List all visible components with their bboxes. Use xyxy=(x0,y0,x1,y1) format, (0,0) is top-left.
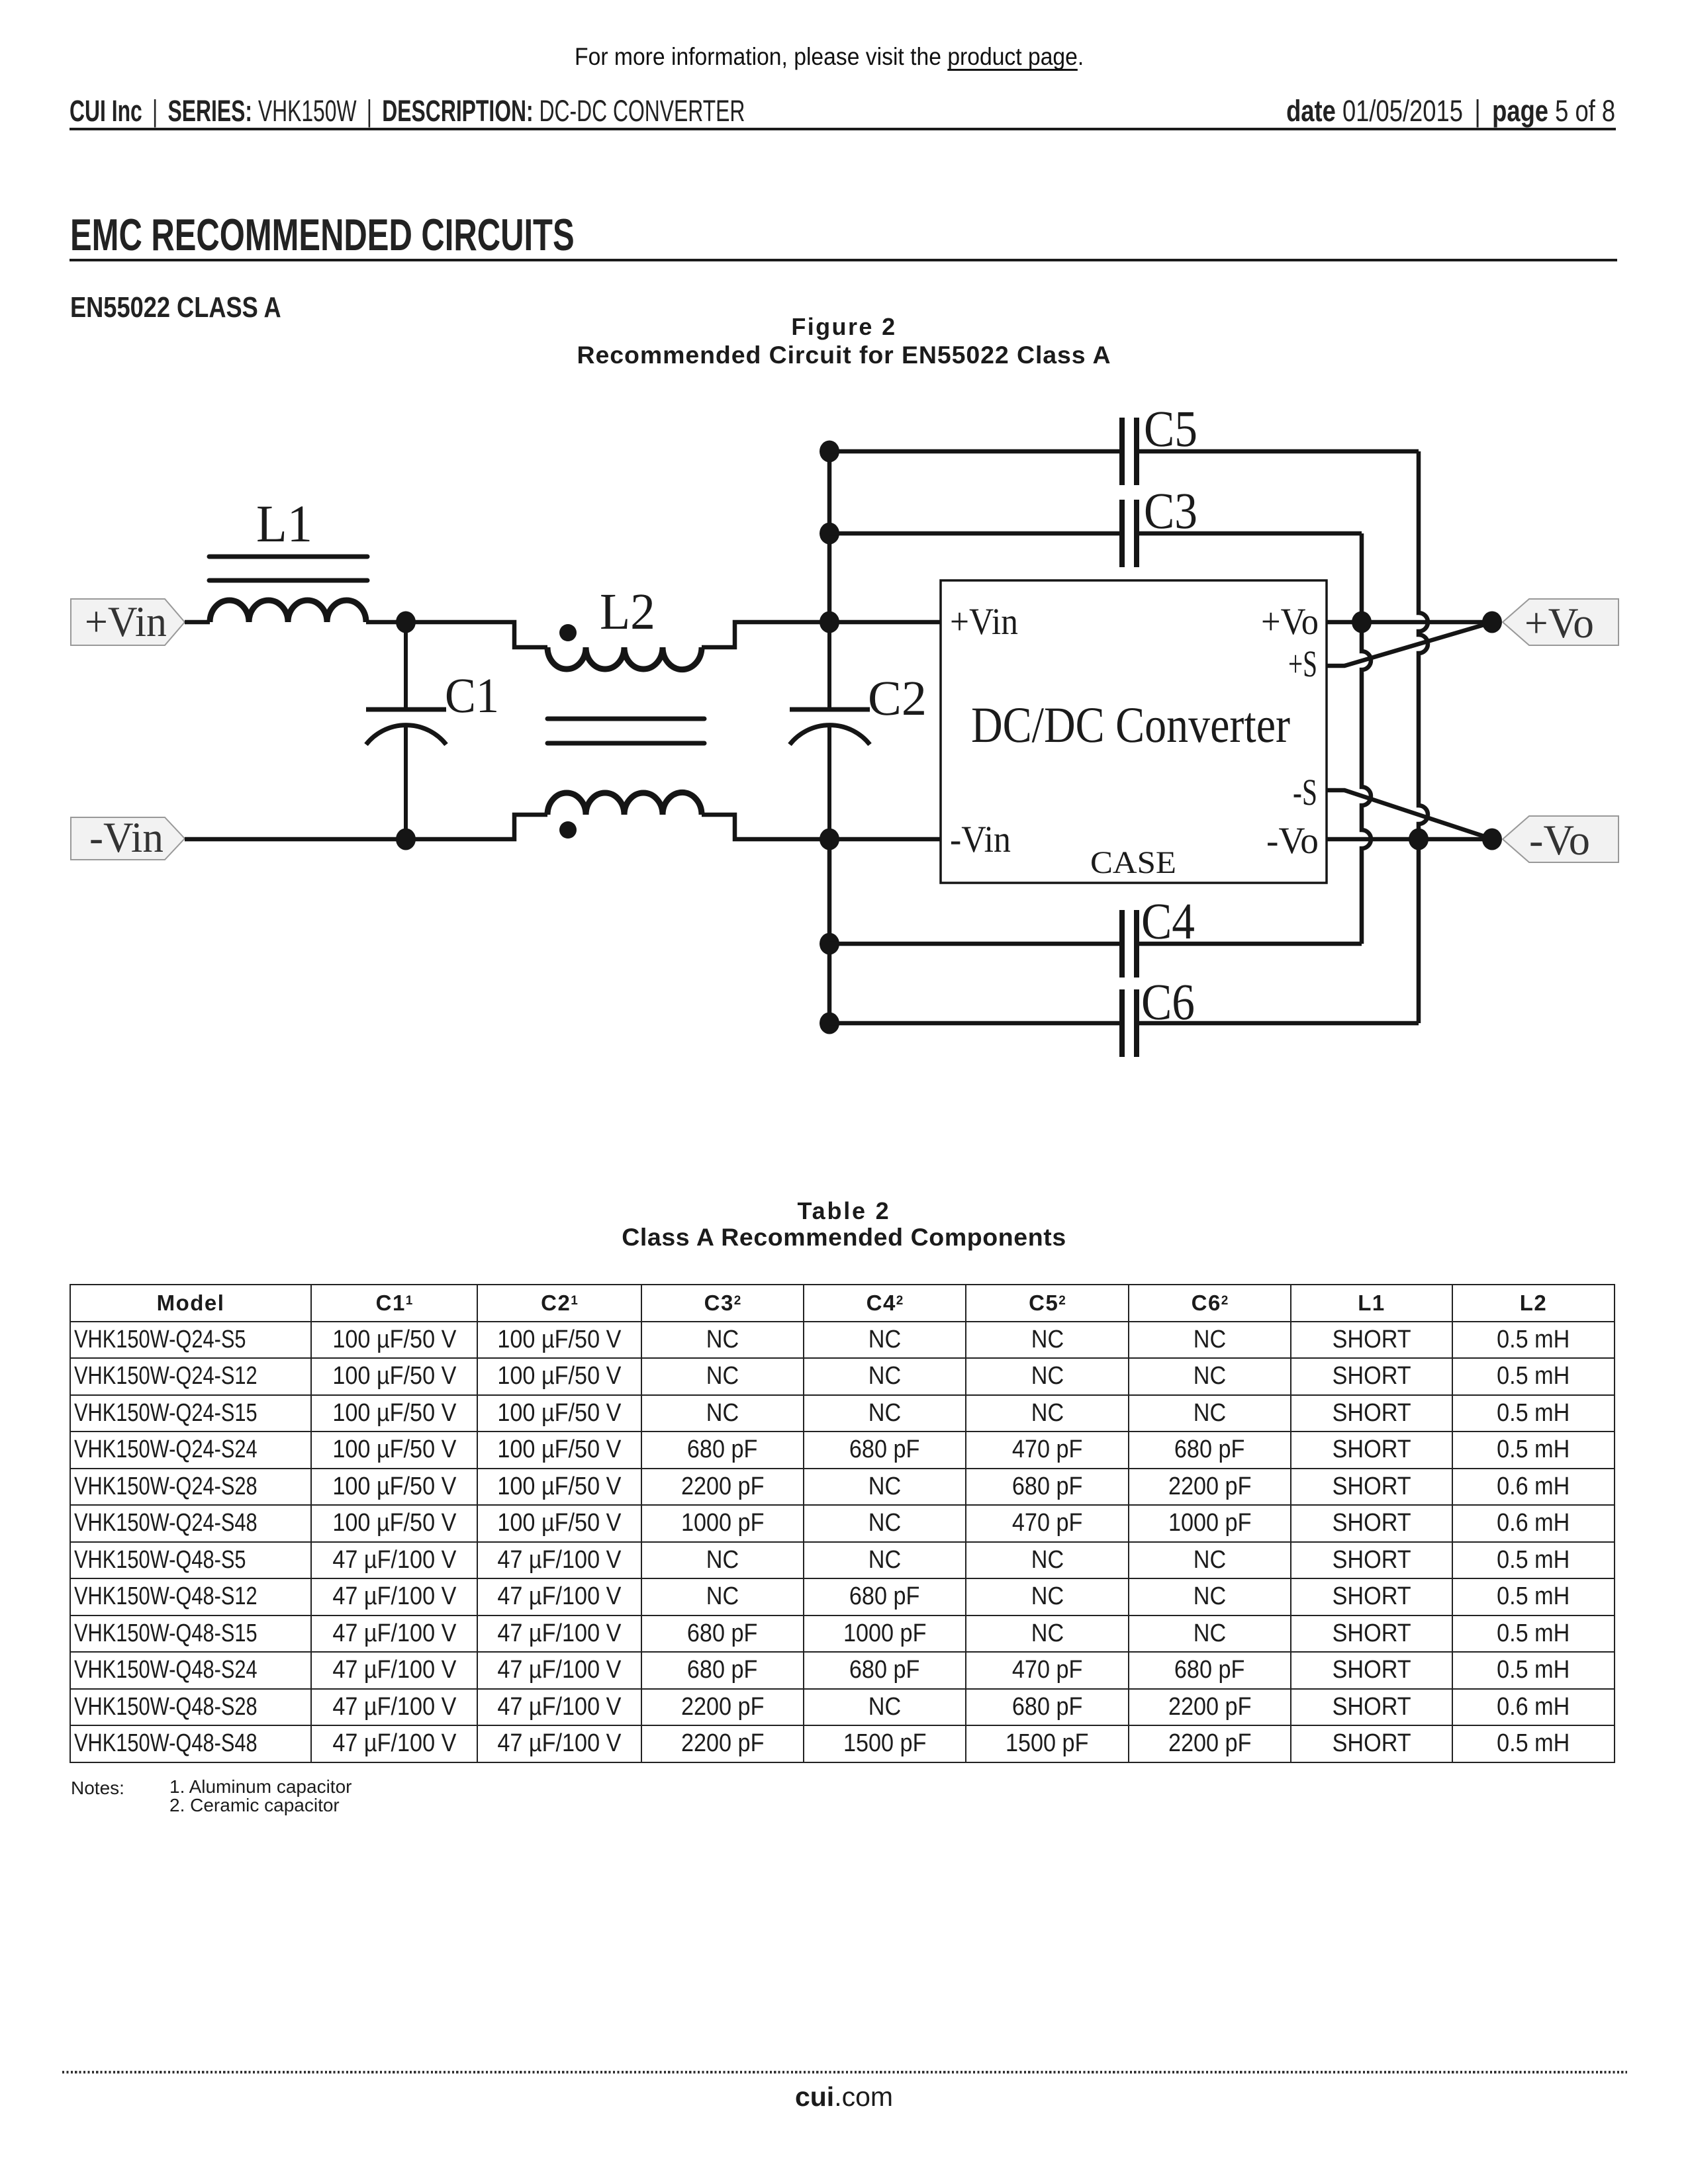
pin label -S xyxy=(1293,772,1317,813)
header link line xyxy=(0,43,1658,71)
wire -Vin tag to node B xyxy=(185,815,547,839)
header left xyxy=(70,94,1023,128)
L2 bottom winding xyxy=(547,792,702,815)
node A junction dot (C1 tap, x=613 y=940) xyxy=(396,612,416,633)
svg-text:C2: C2 xyxy=(868,671,927,726)
svg-text:+Vin: +Vin xyxy=(950,601,1018,643)
wire L1 to node A and jog down to L2 xyxy=(366,622,547,647)
capacitor C1 xyxy=(366,622,499,839)
capacitor C6 xyxy=(829,973,1419,1057)
L2 core bars xyxy=(547,719,704,743)
wire +S sense (crosses to +Vo terminal) xyxy=(1327,623,1491,666)
footer dotted rule xyxy=(62,2071,1627,2073)
svg-text:CASE: CASE xyxy=(1090,845,1176,880)
input bus wire bottom (C4/C6 taps) xyxy=(827,839,832,1023)
node +Vo terminal dot xyxy=(1482,612,1502,633)
svg-text:-Vo: -Vo xyxy=(1529,817,1590,864)
svg-text:L2: L2 xyxy=(600,582,655,640)
wire -S sense (crosses to -Vo terminal) xyxy=(1327,790,1491,839)
svg-text:+S: +S xyxy=(1288,643,1317,685)
svg-text:-S: -S xyxy=(1293,772,1317,813)
wire +Vo output xyxy=(1327,620,1492,625)
section title xyxy=(70,209,771,261)
vertical wire C5 to C6 (with hops) xyxy=(1419,451,1428,1023)
header right xyxy=(1208,94,1615,128)
notes xyxy=(71,1778,124,1799)
svg-text:C3: C3 xyxy=(1144,482,1197,539)
pin label -Vo xyxy=(1266,820,1319,862)
wire -Vo output xyxy=(1327,837,1492,842)
svg-text:+Vin: +Vin xyxy=(85,598,167,646)
DC/DC converter U1 box xyxy=(941,580,1327,883)
svg-text:-Vin: -Vin xyxy=(89,814,164,862)
L2 top winding xyxy=(547,647,702,670)
header rule xyxy=(70,128,1616,130)
component table xyxy=(70,1284,1615,1763)
node B junction dot (x=613 y=1268) xyxy=(396,829,416,850)
node D junction dot (x=1253 y=1268) xyxy=(820,829,839,850)
node H junction dot (bus/C6 x=1253 y=1546) xyxy=(820,1013,839,1034)
subsection xyxy=(70,291,326,324)
svg-text:-Vo: -Vo xyxy=(1266,820,1319,862)
capacitor C5 xyxy=(829,400,1419,485)
wire L2 bottom to node D xyxy=(702,815,941,839)
CIRCUIT SVG xyxy=(0,0,1688,1191)
node E junction dot (bus/C5 x=1253 y=682) xyxy=(820,441,839,463)
svg-text:L1: L1 xyxy=(256,495,312,553)
pin label -Vin xyxy=(950,819,1011,860)
L2 phase dot top xyxy=(559,624,577,641)
inductor L1 xyxy=(209,495,367,622)
wire L2 top to node C xyxy=(702,622,941,647)
input terminal tag +Vin xyxy=(71,598,185,646)
output terminal tag -Vo xyxy=(1503,816,1618,864)
node G junction dot (bus/C4 x=1253 y=1426) xyxy=(820,933,839,955)
table caption xyxy=(0,1197,1688,1225)
input bus wire top (C5/C3 taps) xyxy=(827,451,832,622)
node F junction dot (bus/C3 x=1253 y=806) xyxy=(820,523,839,545)
wire +Vin tag to L1 xyxy=(185,620,210,625)
common-mode choke L2 xyxy=(547,582,704,839)
footer logo xyxy=(0,2081,1688,2113)
capacitor C3 xyxy=(829,482,1362,567)
svg-text:-Vin: -Vin xyxy=(950,819,1011,860)
node I junction dot (+Vo/C3 x=2057 y=940) xyxy=(1352,612,1372,633)
capacitor C2 xyxy=(790,622,927,839)
svg-text:C5: C5 xyxy=(1144,400,1197,457)
svg-text:C1: C1 xyxy=(445,668,499,723)
svg-text:+Vo: +Vo xyxy=(1524,600,1594,647)
pin label +Vin xyxy=(950,601,1018,643)
svg-text:+Vo: +Vo xyxy=(1261,601,1319,643)
input terminal tag -Vin xyxy=(71,814,185,862)
figure caption xyxy=(0,313,1688,341)
node -Vo terminal dot xyxy=(1482,829,1502,850)
node J junction dot (-Vo/C5 x=2143 y=1268) xyxy=(1409,829,1429,850)
pin label +S xyxy=(1288,643,1317,685)
capacitor C4 xyxy=(829,892,1362,978)
output terminal tag +Vo xyxy=(1503,599,1618,647)
vertical wire C3 to C4 (with hops) xyxy=(1362,533,1371,944)
pin label +Vo xyxy=(1261,601,1319,643)
svg-text:DC/DC Converter: DC/DC Converter xyxy=(971,696,1290,753)
svg-text:C4: C4 xyxy=(1141,892,1195,950)
L2 phase dot bottom xyxy=(559,821,577,839)
node C junction dot (x=1253 y=940) xyxy=(820,612,839,633)
